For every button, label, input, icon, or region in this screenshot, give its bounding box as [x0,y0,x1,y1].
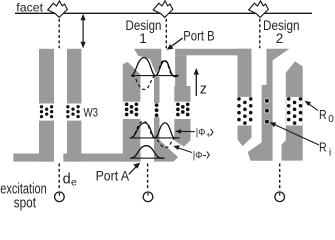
design2 left mirror holes [237,97,252,125]
double arrow facet distance [81,14,86,48]
Port B arrow [167,38,183,50]
design2 right bar [282,61,303,160]
svg-text:e: e [71,176,77,188]
middle mode dashed curve [131,121,176,147]
W3 right bar holes [66,105,80,118]
svg-text:1: 1 [139,31,147,46]
dashed line design2 top [259,19,261,49]
d_e dashed line [58,164,60,191]
svg-text:2: 2 [276,31,284,46]
svg-text:facet: facet [16,1,43,14]
excitation circle design2 [275,192,285,202]
svg-text:i: i [329,147,331,158]
Port A arrow [129,166,138,175]
Ri arrow [272,123,319,145]
top mode solid curve [132,58,179,77]
design1 top block [134,49,161,74]
middle mode profile baseline [130,137,180,139]
top mode dashed curve [132,60,179,89]
dashed line W3 top [58,19,60,49]
design1 bar B holes [155,103,159,117]
design2 dashed line bottom [279,164,281,191]
port A dashed line [147,164,149,191]
design1 bar C [174,86,190,147]
design2 middle bar [248,49,289,161]
W3 right bar hole band [67,104,81,121]
design1 bar A [123,62,141,162]
z axis arrow [194,68,199,96]
dashed line design1 top [165,19,167,49]
bottom mode solid curve [131,146,164,159]
design1 bar C hole band [174,102,190,119]
svg-text:z: z [200,81,207,98]
svg-text:0: 0 [328,114,334,125]
facet break symbol 3 [249,1,269,18]
design2 middle bar holes [265,99,269,124]
R0 arrow [307,103,318,111]
svg-text:Port A: Port A [96,167,130,183]
svg-text:spot: spot [14,195,37,212]
design1 bar B hole band [154,103,160,117]
design1 frame left arm [175,55,186,86]
svg-text:R: R [319,139,327,154]
design2 right bar holes [287,97,302,125]
design1 bar A hole band [123,102,141,119]
design2 right bar hole band [286,97,302,126]
svg-text:Port B: Port B [183,28,214,44]
svg-text:R: R [319,107,327,122]
svg-text:W3: W3 [84,105,99,119]
facet break symbol 2 [153,1,173,18]
facet line [15,12,312,14]
top mode profile baseline [131,75,179,77]
excitation circle W3 [55,192,65,202]
facet break symbol 1 [48,1,68,18]
svg-text:d: d [63,172,71,188]
design1 bar B with foot [154,77,178,162]
W3 right bar [67,49,81,162]
design2 left mirror hole band [237,97,253,126]
svg-text:+: + [206,131,211,140]
middle mode solid curve [131,123,179,138]
design1 bar A holes [125,102,138,116]
excitation circle design1 [143,192,153,202]
design2 middle bar hole halos [264,98,269,124]
svg-text:|Φ: |Φ [196,127,206,139]
W3 left foot [13,154,54,162]
W3 left bar holes [40,105,53,118]
bottom bar with d_e nub [63,154,140,162]
phi minus arrow [176,147,193,153]
design2 left mirror bar [238,49,252,147]
phi plus arrow [178,130,195,132]
W3 left bar hole band [39,104,54,121]
svg-text:|Φ: |Φ [193,149,203,161]
design1 frame top bar [175,49,251,56]
design1 bar C holes [176,102,190,116]
W3 left bar [39,49,54,162]
bottom mode profile baseline [130,157,165,159]
